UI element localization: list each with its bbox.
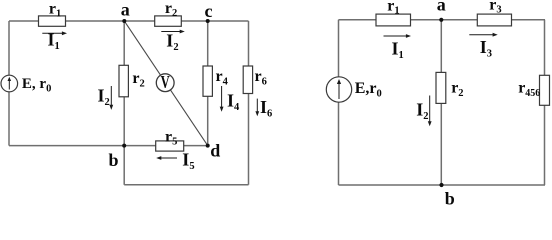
node a right bbox=[439, 18, 443, 22]
node b right bbox=[439, 183, 443, 187]
resistor r1 (box) bbox=[39, 16, 66, 26]
wire b down to bottom loop bbox=[123, 146, 125, 185]
resistor r3 (box) bbox=[477, 14, 511, 26]
current arrow I5 (left) bbox=[156, 156, 177, 160]
current arrow I1 bbox=[42, 31, 67, 35]
node c bbox=[206, 19, 210, 23]
resistor r2 right (box) bbox=[436, 72, 446, 103]
current arrow I3 bbox=[469, 33, 497, 37]
wire bottom left (source to b to d) bbox=[9, 145, 208, 147]
svg-text:b: b bbox=[108, 150, 118, 170]
resistor r2 vertical (box) bbox=[119, 65, 128, 97]
current arrow I6 (down) bbox=[255, 99, 259, 117]
voltage source E,r0 right bbox=[326, 77, 351, 102]
svg-text:b: b bbox=[445, 189, 455, 207]
wire bottom loop horizontal bbox=[124, 184, 248, 186]
wire left vertical through source bbox=[8, 21, 10, 146]
wire top (E to r1 to a to r2 to c to right corner) bbox=[9, 20, 249, 22]
resistor r1 right (box) bbox=[376, 14, 411, 26]
wire right vertical through r456 bbox=[544, 20, 546, 185]
resistor r6 (box) bbox=[243, 66, 252, 94]
svg-text:d: d bbox=[210, 140, 220, 160]
wire right vertical through r6 bbox=[248, 21, 250, 185]
current arrow I2 left (down) bbox=[109, 86, 113, 110]
node a bbox=[122, 19, 126, 23]
wire top right circuit bbox=[339, 19, 546, 21]
current arrow I1 right bbox=[384, 34, 412, 38]
voltage source E,r0 left bbox=[1, 75, 18, 92]
current arrow I4 (down) bbox=[220, 86, 224, 112]
wire diagonal a-d through voltmeter bbox=[124, 21, 207, 146]
wire vertical a-b through r2 bbox=[123, 21, 125, 146]
voltmeter V bbox=[156, 73, 174, 93]
current arrow I2 top bbox=[161, 30, 185, 34]
wire vertical c-d through r4 bbox=[207, 21, 209, 146]
node d bbox=[206, 144, 210, 148]
current arrow I2 right (down) bbox=[428, 96, 432, 127]
svg-text:a: a bbox=[437, 0, 446, 15]
wire left vertical right circuit bbox=[338, 20, 340, 185]
resistor r456 (box) bbox=[540, 75, 550, 105]
svg-text:c: c bbox=[205, 1, 213, 21]
resistor r4 (box) bbox=[203, 66, 212, 96]
resistor r2 top (box) bbox=[155, 16, 182, 26]
wire bottom right circuit bbox=[339, 184, 546, 186]
node b bbox=[122, 144, 126, 148]
wire middle vertical a-b right circuit bbox=[440, 20, 442, 185]
svg-text:V: V bbox=[161, 73, 170, 93]
svg-text:a: a bbox=[121, 0, 130, 20]
resistor r5 (box) bbox=[156, 141, 184, 151]
